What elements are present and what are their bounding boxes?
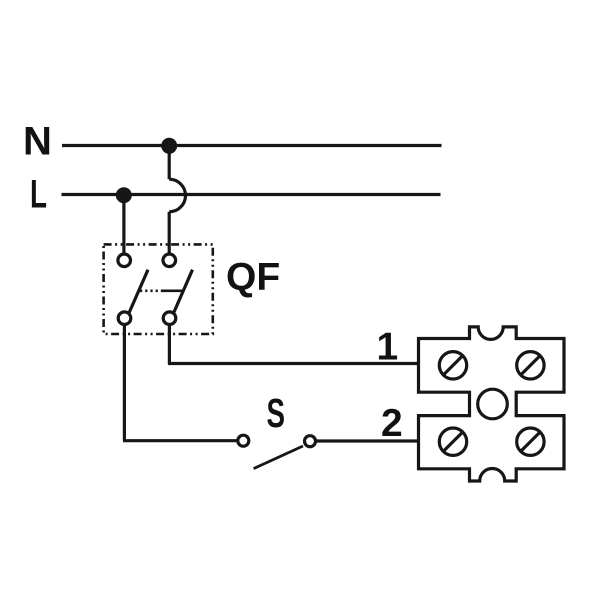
svg-text:N: N [23,120,52,164]
svg-text:2: 2 [381,402,403,445]
breaker QF box (dashed) [104,244,213,334]
QF coupling link solid part [161,289,183,292]
QF bottom-right contact [163,312,176,325]
wire QF right pole down [168,325,171,364]
wire L drop to QF left pole [122,195,125,254]
node junction on N line [161,138,177,154]
QF top-right contact [163,254,176,267]
node junction on L line [116,187,132,203]
wire hop down to QF right pole [168,212,171,255]
QF bottom-left contact [118,312,131,325]
wire N line [62,144,442,147]
svg-text:QF: QF [226,256,280,299]
terminal screw top-right [517,352,544,379]
wire QF left pole down [123,325,126,441]
wire across to switch S [123,439,238,442]
wire L line [62,193,441,196]
terminal screw top-left [439,352,466,379]
terminal block outline [419,327,565,481]
svg-text:L: L [30,173,47,217]
terminal block center hole [478,389,508,419]
QF top-left contact [118,254,131,267]
switch S left contact [238,435,249,446]
switch S right contact [305,436,316,447]
terminal screw bottom-left [439,428,466,455]
svg-text:1: 1 [377,326,399,369]
wire QF to terminal 1 [168,362,419,365]
svg-text:S: S [267,390,286,436]
QF coupling link dotted part [140,289,161,292]
wire N drop to hop [168,146,171,179]
wire crossover hop over L [169,179,185,212]
QF left blade [129,270,148,313]
wire S to terminal 2 [316,439,419,442]
terminal screw bottom-right [517,428,544,455]
switch S blade (open) [254,446,303,469]
QF right blade [174,270,193,313]
